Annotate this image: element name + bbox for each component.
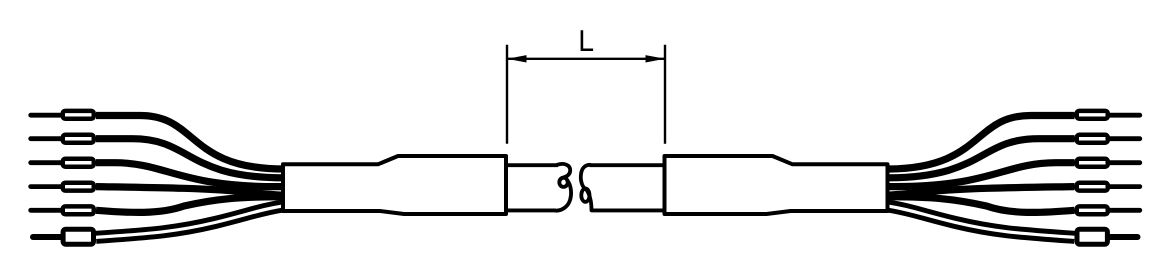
left squiggle loop xyxy=(559,178,567,187)
ferrule 2 xyxy=(63,135,94,143)
wire 4 xyxy=(96,187,284,196)
left harness: wires, stubs, ferrules xyxy=(31,111,506,244)
ferrule 1 xyxy=(63,111,94,119)
wire 6 lead (thick) xyxy=(33,234,75,240)
wire 6 (thick, hollow outline) xyxy=(96,206,284,238)
right cable segment bottom line xyxy=(592,208,666,212)
left squiggle top bump xyxy=(557,164,570,180)
dimension label L xyxy=(582,30,593,49)
dimension line xyxy=(507,58,665,60)
left cable segment bottom line xyxy=(506,208,556,212)
dimension arrow left xyxy=(507,55,527,62)
wire 5 xyxy=(96,197,284,213)
right squiggle arc xyxy=(581,165,590,189)
left cable break squiggle xyxy=(556,164,571,211)
wire 1 lead xyxy=(31,113,75,118)
right squiggle tail xyxy=(585,189,591,211)
wire 3 xyxy=(96,163,284,187)
dimension extension line right xyxy=(664,45,666,144)
left squiggle bottom bump xyxy=(556,180,571,210)
dimension extension line left xyxy=(506,45,508,144)
wire 4 lead xyxy=(31,184,75,189)
ferrule 4 xyxy=(63,183,94,191)
right cable segment top line xyxy=(590,163,666,167)
wire 5 lead xyxy=(31,208,75,213)
wire 3 lead xyxy=(31,160,75,165)
right harness (mirror of left) xyxy=(665,111,1140,244)
ferrule 3 xyxy=(63,159,94,167)
right cable break squiggle xyxy=(581,165,592,211)
wire 6 white core xyxy=(96,206,284,238)
ferrule 5 xyxy=(63,206,94,214)
wire 1 xyxy=(96,116,284,170)
left cable segment top line xyxy=(506,163,558,167)
right squiggle loop xyxy=(581,189,589,202)
wire 2 xyxy=(96,139,284,178)
dimension arrow right xyxy=(646,55,666,62)
ferrule 6 (large) xyxy=(63,229,93,244)
wire 2 lead xyxy=(31,136,75,141)
cable sheath (boot + big shrink tube) xyxy=(283,156,506,214)
